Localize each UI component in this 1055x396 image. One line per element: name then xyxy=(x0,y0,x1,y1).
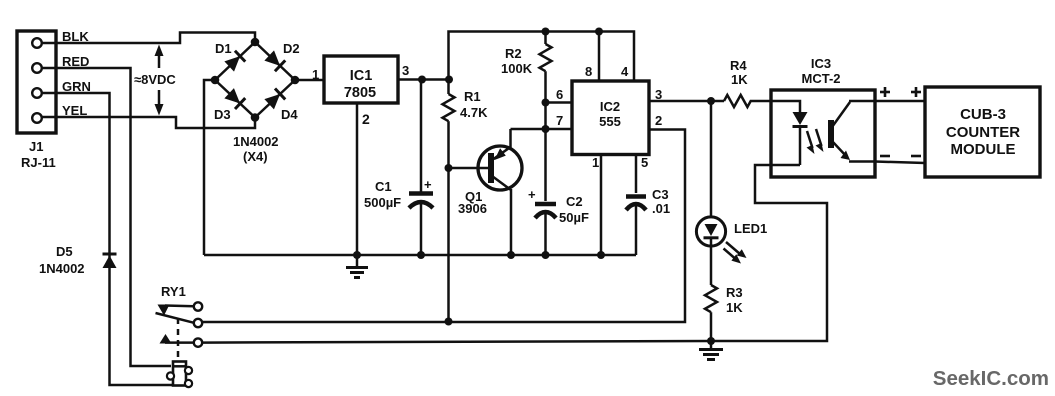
svg-text:50µF: 50µF xyxy=(559,210,589,225)
svg-text:1K: 1K xyxy=(731,72,748,87)
LED1 light arrows xyxy=(724,242,747,264)
IC3 internal LED xyxy=(771,101,808,165)
wire IC3 emitter to counter - xyxy=(875,162,925,164)
svg-text:7805: 7805 xyxy=(344,85,376,101)
svg-text:1N4002: 1N4002 xyxy=(233,134,279,149)
wire top supply rail xyxy=(449,32,635,82)
led LED1 xyxy=(696,217,725,247)
connector J1 xyxy=(17,31,56,170)
diode D3 xyxy=(224,88,245,109)
wire IC3 collector to counter + xyxy=(875,100,925,103)
node rail pin8 xyxy=(595,28,603,36)
optocoupler IC3 MCT-2 xyxy=(771,56,875,177)
minus sign counter input xyxy=(911,155,921,158)
label ~8VDC with arrow xyxy=(134,45,176,116)
wire ground rail xyxy=(204,254,636,257)
svg-text:D1: D1 xyxy=(215,41,232,56)
svg-text:R1: R1 xyxy=(464,89,481,104)
wire LED1 branch xyxy=(710,101,713,217)
svg-text:D5: D5 xyxy=(56,244,73,259)
svg-text:2: 2 xyxy=(362,111,370,127)
svg-text:1: 1 xyxy=(592,155,599,170)
ground symbol LED xyxy=(699,341,723,360)
node rail IC1 gnd xyxy=(353,251,361,259)
svg-text:4: 4 xyxy=(621,64,629,79)
svg-text:1N4002: 1N4002 xyxy=(39,261,85,276)
node left of bridge xyxy=(211,76,220,85)
svg-text:IC1: IC1 xyxy=(350,68,373,84)
resistor R1 xyxy=(443,80,455,169)
node right of bridge xyxy=(291,76,300,85)
wire pin 6 xyxy=(546,101,573,104)
node rail C2 xyxy=(542,251,550,259)
svg-text:R3: R3 xyxy=(726,285,743,300)
svg-text:D4: D4 xyxy=(281,107,298,122)
wire IC2 pin3 output xyxy=(649,100,724,103)
ic IC2 555 xyxy=(572,81,649,155)
node trigger/base junction xyxy=(445,318,453,326)
IC3 phototransistor xyxy=(831,101,875,162)
wire bridge right node to IC1 pin 1 xyxy=(295,79,324,82)
node LED ground junction xyxy=(707,337,715,345)
node pin 7 xyxy=(542,125,550,133)
resistor R3 xyxy=(705,247,717,341)
svg-text:MODULE: MODULE xyxy=(951,141,1016,158)
svg-text:4.7K: 4.7K xyxy=(460,105,488,120)
svg-text:8: 8 xyxy=(585,64,592,79)
node Q1 base junction xyxy=(445,164,453,172)
svg-text:R4: R4 xyxy=(730,58,747,73)
wire Q1 base line down to trigger xyxy=(447,168,450,322)
wire IC2 pin1 down xyxy=(600,155,603,256)
svg-text:R2: R2 xyxy=(505,46,522,61)
svg-text:2: 2 xyxy=(655,113,662,128)
svg-text:100K: 100K xyxy=(501,61,533,76)
svg-text:3: 3 xyxy=(402,63,409,78)
node pin3/LED junction xyxy=(707,97,715,105)
svg-text:MCT-2: MCT-2 xyxy=(802,71,841,86)
svg-text:C1: C1 xyxy=(375,179,392,194)
wire pin 8 drop xyxy=(598,32,601,82)
node rail R2 xyxy=(542,28,550,36)
node R1 top junction xyxy=(445,76,453,84)
node rail Q1 xyxy=(507,251,515,259)
node rail C1 xyxy=(417,251,425,259)
wire IC1 pin3 xyxy=(398,78,449,81)
wire GRN xyxy=(42,93,174,385)
wire BLK xyxy=(42,33,255,44)
svg-text:LED1: LED1 xyxy=(734,221,767,236)
wire IC3 cathode to ground line xyxy=(711,165,827,341)
diode D1 xyxy=(224,51,245,72)
wire IC1 pin2 down xyxy=(356,103,359,255)
module CUB-3 xyxy=(925,87,1040,177)
op-amp IC1 7805 regulator xyxy=(324,56,398,103)
svg-text:D3: D3 xyxy=(214,107,231,122)
svg-text:+: + xyxy=(424,177,432,192)
minus sign IC3 output xyxy=(880,155,890,158)
diode bridge wires xyxy=(215,42,295,118)
relay RY1 switch xyxy=(156,284,203,360)
svg-text:+: + xyxy=(528,187,536,202)
diode D4 xyxy=(264,88,285,109)
diode D5 xyxy=(103,254,117,268)
plus sign IC3 output xyxy=(880,87,890,97)
capacitor C3 xyxy=(626,155,646,256)
svg-text:IC2: IC2 xyxy=(600,99,620,114)
transistor Q1 xyxy=(449,129,523,255)
svg-text:555: 555 xyxy=(599,114,621,129)
svg-text:.01: .01 xyxy=(652,201,670,216)
capacitor C2 xyxy=(528,187,556,255)
svg-text:COUNTER: COUNTER xyxy=(946,124,1020,141)
svg-text:5: 5 xyxy=(641,155,648,170)
svg-text:6: 6 xyxy=(556,87,563,102)
svg-text:D2: D2 xyxy=(283,41,300,56)
wire IC2 pin2 to trigger line xyxy=(202,130,685,323)
svg-text:CUB-3: CUB-3 xyxy=(960,106,1006,123)
svg-text:J1: J1 xyxy=(29,139,43,154)
node top of bridge xyxy=(251,38,260,47)
svg-text:1K: 1K xyxy=(726,300,743,315)
svg-text:C3: C3 xyxy=(652,187,669,202)
wire RY1 NO contact to LED ground junction xyxy=(202,341,711,343)
svg-text:7: 7 xyxy=(556,113,563,128)
node bottom of bridge xyxy=(251,113,260,122)
diode D2 xyxy=(264,50,285,71)
wire bridge left node to ground rail xyxy=(204,80,215,255)
node pin 6 xyxy=(542,99,550,107)
svg-text:SeekIC.com: SeekIC.com xyxy=(933,367,1049,390)
IC3 light arrows xyxy=(807,129,824,154)
svg-text:(X4): (X4) xyxy=(243,149,268,164)
ground symbol main xyxy=(346,255,368,278)
svg-text:≈8VDC: ≈8VDC xyxy=(134,72,176,87)
relay RY1 coil xyxy=(167,362,192,388)
svg-text:500µF: 500µF xyxy=(364,195,401,210)
resistor R4 xyxy=(724,95,771,107)
node C1 tap xyxy=(418,76,426,84)
svg-text:RY1: RY1 xyxy=(161,284,186,299)
svg-text:1: 1 xyxy=(312,67,319,82)
wire RED xyxy=(42,68,171,366)
capacitor C1 xyxy=(409,80,433,256)
svg-text:IC3: IC3 xyxy=(811,56,831,71)
wire pin 7 xyxy=(511,128,573,131)
svg-text:C2: C2 xyxy=(566,194,583,209)
plus sign counter input xyxy=(911,87,921,97)
svg-text:RJ-11: RJ-11 xyxy=(21,155,56,170)
node rail IC2 pin1 xyxy=(597,251,605,259)
wire YEL xyxy=(42,117,255,128)
svg-text:3906: 3906 xyxy=(458,201,487,216)
resistor R2 xyxy=(540,32,552,202)
